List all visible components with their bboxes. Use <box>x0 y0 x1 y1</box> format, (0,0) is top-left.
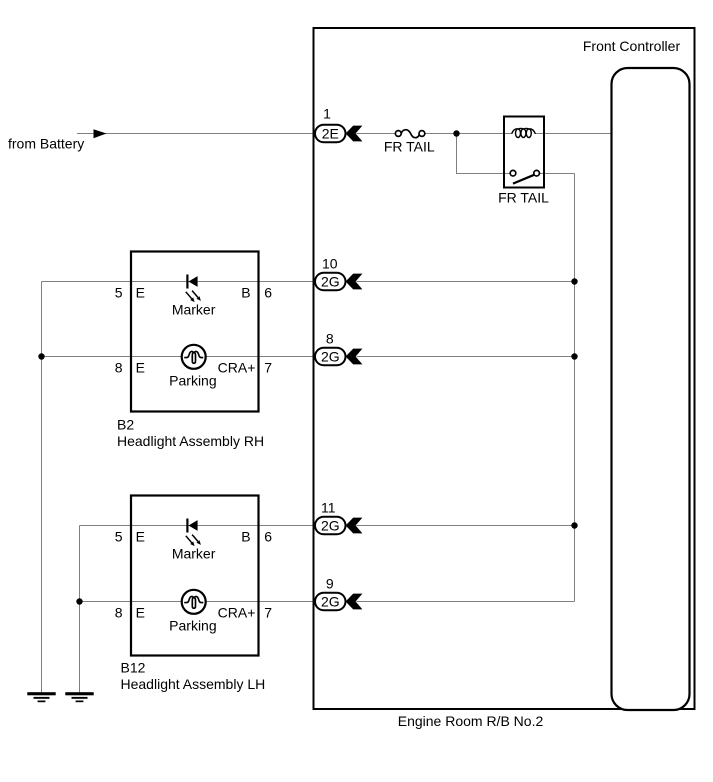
wire pin8 row <box>357 356 575 358</box>
front controller block <box>612 68 690 710</box>
svg-text:2E: 2E <box>322 125 339 141</box>
junction dot battery/relay <box>453 130 459 136</box>
wire RH parking row <box>42 356 316 358</box>
svg-text:Parking: Parking <box>169 373 216 389</box>
svg-text:E: E <box>136 605 145 621</box>
fuse FR TAIL <box>395 130 424 138</box>
relay coil <box>512 128 536 137</box>
svg-text:Marker: Marker <box>172 302 216 318</box>
svg-text:CRA+: CRA+ <box>218 360 256 376</box>
connector 2G pin 8 <box>315 348 346 366</box>
svg-text:2G: 2G <box>321 593 340 609</box>
connector 2G pin 11 <box>315 517 346 535</box>
headlight assembly LH box B12 <box>131 496 259 656</box>
connector 2E pin 1 <box>315 125 346 143</box>
svg-text:6: 6 <box>264 285 272 301</box>
wire LH parking row <box>80 601 316 603</box>
svg-text:B12: B12 <box>121 660 146 676</box>
svg-text:FR TAIL: FR TAIL <box>384 139 435 155</box>
Engine Room R/B No.2 box <box>314 28 695 709</box>
svg-text:9: 9 <box>326 575 334 591</box>
diode marker LH <box>186 519 197 533</box>
wire LH ground drop <box>79 526 81 693</box>
svg-text:8: 8 <box>115 605 123 621</box>
wire coil to front controller <box>536 133 612 135</box>
svg-text:2G: 2G <box>321 348 340 364</box>
svg-text:11: 11 <box>321 499 336 515</box>
wire junction drop to relay switch <box>457 134 510 174</box>
wire battery feed <box>77 133 315 135</box>
junction dot pin11/collector <box>571 522 577 528</box>
ground LH <box>65 692 93 702</box>
svg-text:1: 1 <box>323 106 331 122</box>
svg-text:5: 5 <box>115 529 123 545</box>
parking lamp LH <box>182 590 206 614</box>
junction dot RH parking/ground <box>38 353 44 359</box>
svg-text:2G: 2G <box>321 273 340 289</box>
wire RH marker row <box>42 281 316 283</box>
svg-text:Headlight Assembly RH: Headlight Assembly RH <box>117 433 264 449</box>
junction dot pin8/collector <box>571 353 577 359</box>
svg-text:Headlight Assembly LH: Headlight Assembly LH <box>121 676 266 692</box>
wire relay switch output <box>540 173 575 175</box>
svg-text:FR TAIL: FR TAIL <box>498 190 549 206</box>
svg-text:8: 8 <box>115 360 123 376</box>
junction dot LH parking/ground <box>76 598 82 604</box>
svg-text:Marker: Marker <box>172 546 216 562</box>
ground RH <box>27 692 55 702</box>
svg-text:Front Controller: Front Controller <box>583 38 681 54</box>
svg-text:E: E <box>136 360 145 376</box>
connector arrow 2E <box>346 126 363 142</box>
svg-text:CRA+: CRA+ <box>218 605 256 621</box>
connector arrow 2G9 <box>346 594 363 610</box>
relay switch contacts <box>510 170 539 183</box>
connector arrow 2G10 <box>346 274 363 290</box>
from Battery arrow <box>94 129 107 138</box>
LED arrows LH <box>186 535 201 547</box>
svg-text:2G: 2G <box>321 517 340 533</box>
svg-text:E: E <box>136 529 145 545</box>
svg-text:B: B <box>241 285 250 301</box>
wire pin10 row <box>357 281 575 283</box>
headlight assembly RH box B2 <box>131 252 259 412</box>
svg-text:5: 5 <box>115 285 123 301</box>
wire pin11 row <box>357 525 575 527</box>
svg-text:Engine Room R/B No.2: Engine Room R/B No.2 <box>398 713 544 729</box>
svg-text:E: E <box>136 285 145 301</box>
diode marker RH <box>186 275 197 289</box>
wire fuse to relay coil <box>425 133 512 135</box>
svg-text:6: 6 <box>264 529 272 545</box>
LED arrows RH <box>186 291 201 303</box>
connector arrow 2G8 <box>346 349 363 365</box>
svg-text:B: B <box>241 529 250 545</box>
junction dot pin10/collector <box>571 278 577 284</box>
wire RH ground drop <box>41 282 43 693</box>
svg-text:7: 7 <box>264 360 272 376</box>
relay FR TAIL box <box>504 117 544 188</box>
svg-text:B2: B2 <box>117 417 134 433</box>
svg-text:from Battery: from Battery <box>8 136 84 152</box>
wire collector vertical <box>574 174 576 602</box>
connector arrow 2G11 <box>346 518 363 534</box>
svg-text:7: 7 <box>264 605 272 621</box>
connector 2G pin 10 <box>315 273 346 291</box>
svg-text:Parking: Parking <box>169 618 216 634</box>
parking lamp RH <box>182 345 206 369</box>
wire 2E to fuse <box>357 133 396 135</box>
svg-text:10: 10 <box>322 255 338 271</box>
connector 2G pin 9 <box>315 593 346 611</box>
svg-text:8: 8 <box>326 330 334 346</box>
wire LH marker row <box>80 525 316 527</box>
wire pin9 row <box>357 601 575 603</box>
